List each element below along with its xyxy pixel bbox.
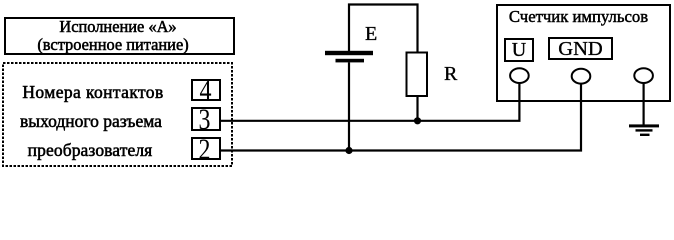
label line 1: Номера контактов <box>11 84 175 101</box>
title line 2 <box>0 36 229 55</box>
wire: battery bottom to net 2 <box>348 62 350 150</box>
ground symbol <box>629 124 659 136</box>
terminal label box U <box>504 38 534 62</box>
wire net 2: contact 2 to terminal GND <box>221 84 581 151</box>
terminal label box GND <box>548 37 613 60</box>
terminal circle earth <box>634 68 653 83</box>
contact pin 3 <box>191 107 221 131</box>
terminal circle U <box>510 68 529 83</box>
resistor label R <box>444 64 457 84</box>
wire: earth terminal to ground <box>642 83 644 125</box>
label line 3: преобразователя <box>8 142 172 159</box>
enclosure label box "Исполнение А" <box>4 17 235 55</box>
contact pin 2 <box>191 137 221 160</box>
label line 2: выходного разъема <box>9 113 173 130</box>
dashed enclosure box (connector contacts) <box>0 0 674 172</box>
battery label E <box>365 24 377 44</box>
battery E top plate <box>325 51 373 55</box>
junction: resistor on net 3 <box>414 117 421 124</box>
resistor R body <box>407 53 428 97</box>
wire: battery top to resistor top <box>349 5 418 53</box>
contact pin 4 <box>191 79 221 101</box>
counter title <box>493 8 664 25</box>
title line 1 <box>3 18 234 37</box>
junction: battery on net 2 <box>345 147 352 154</box>
battery E bottom plate <box>336 59 365 63</box>
pulse counter box "Счетчик импульсов" <box>496 4 671 103</box>
wire: resistor bottom to net 3 <box>416 96 418 121</box>
wire net 3: contact 3 to terminal U <box>221 83 519 121</box>
terminal circle GND <box>572 69 591 84</box>
